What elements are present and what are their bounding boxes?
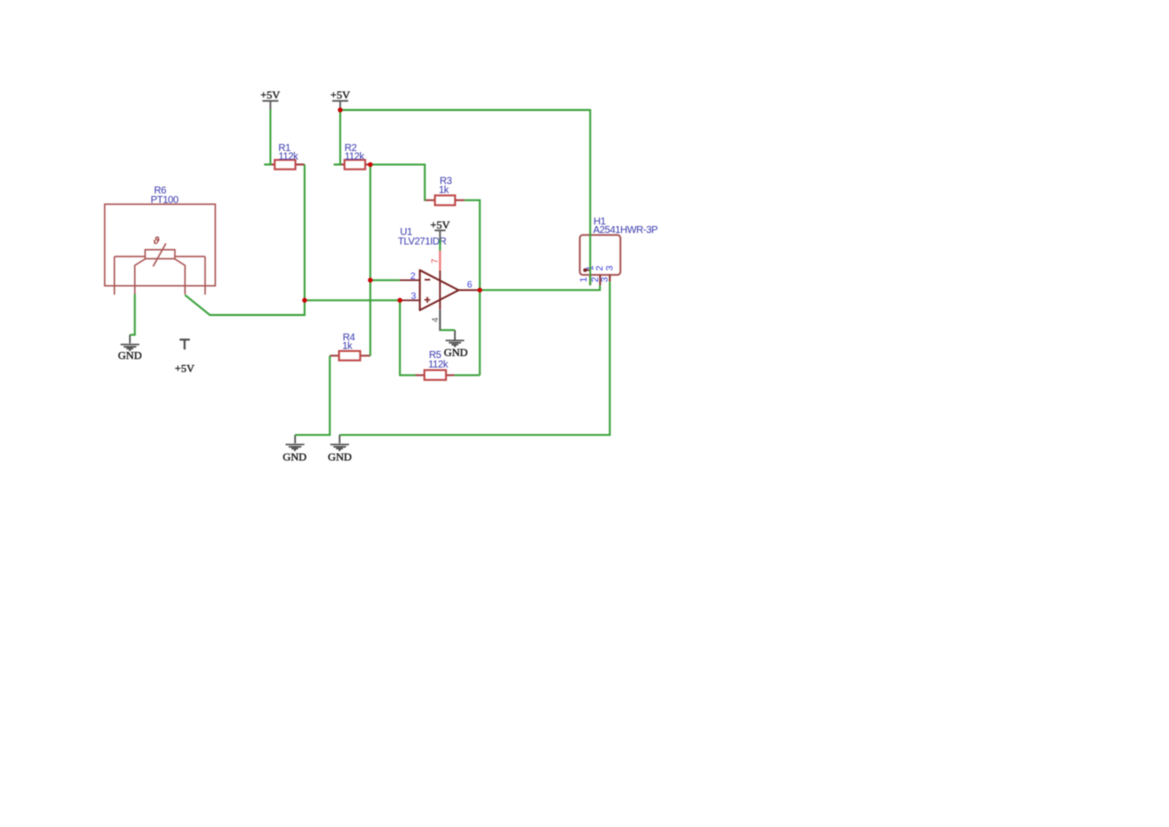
ground GND-C (opamp pin4) (444, 330, 468, 359)
svg-text:GND: GND (118, 350, 142, 362)
svg-text:A2541HWR-3P: A2541HWR-3P (593, 225, 658, 236)
svg-text:112k: 112k (278, 151, 299, 162)
svg-text:112k: 112k (428, 359, 449, 370)
wire branch to opamp pin2 (370, 279, 400, 281)
resistor R2 (334, 160, 371, 169)
svg-text:7: 7 (430, 258, 440, 263)
wire +5V P3 stub to pin7 (439, 240, 441, 251)
svg-text:GND: GND (283, 451, 307, 463)
power +5V symbol P3 (opamp supply) (430, 219, 450, 239)
opamp pin6 lead (459, 289, 480, 291)
svg-text:1k: 1k (342, 341, 353, 352)
svg-text:ϑ: ϑ (153, 236, 161, 247)
svg-text:+5V: +5V (330, 90, 350, 102)
wire pin3 node down to R5 (400, 300, 416, 375)
H1 pin1 stub (589, 275, 591, 285)
power +5V symbol P2 (above R2) (330, 90, 350, 109)
wire pin7 highlighted segment (439, 251, 441, 271)
wire PT100 to ground GND-D (130, 294, 135, 335)
thermistor R6 PT100 (105, 204, 216, 294)
wire R1 to node A (304, 165, 306, 301)
wire +5V P1 to R1 pin1 (264, 110, 270, 165)
resistor R4 (330, 351, 371, 360)
wire node A to opamp pin3 (305, 299, 400, 301)
wire R2 to R3 (370, 165, 425, 201)
svg-text:4: 4 (430, 317, 440, 322)
ground GND-A (rail left) (283, 435, 307, 464)
resistor R1 (264, 160, 304, 169)
svg-text:6: 6 (467, 279, 472, 290)
svg-text:+5V: +5V (260, 90, 280, 102)
connector H1 (580, 235, 621, 275)
svg-text:GND: GND (444, 347, 468, 359)
ground GND-B (rail) (328, 435, 352, 464)
resistor R3 (425, 195, 464, 205)
node junction at opamp output (477, 288, 482, 293)
wire opamp output to H1 pin2 (480, 285, 600, 290)
op-amp U1 (420, 270, 459, 310)
power +5V symbol P1 (above R1) (260, 90, 280, 111)
svg-text:2: 2 (410, 271, 415, 282)
svg-text:3: 3 (411, 291, 416, 302)
H1 pin3 stub (609, 275, 611, 282)
unconnected +5V symbol (T) (175, 340, 195, 375)
wire R5 to output column (454, 374, 479, 376)
ground GND-D (below PT100) (118, 335, 142, 362)
resistor R5 (416, 370, 455, 380)
wire R3 to output column (465, 200, 480, 375)
wire R4 to ground GND-A (295, 356, 330, 435)
wire pin4 to ground GND-C (440, 329, 455, 331)
svg-text:1k: 1k (439, 185, 450, 196)
svg-text:3: 3 (604, 266, 615, 271)
wire H1 pin3 to ground GND-B (340, 282, 610, 435)
opamp pin3 lead (400, 299, 420, 301)
svg-text:GND: GND (328, 451, 352, 463)
H1 pin2 stub (599, 275, 601, 285)
wire +5V P2 to R2 pin1 (334, 109, 340, 165)
svg-text:+5V: +5V (175, 363, 195, 375)
opamp pin7 lead (439, 270, 441, 310)
node junction at R2 output (368, 162, 373, 167)
node junction at +5V P2 (338, 108, 343, 113)
node junction at pin2 branch (368, 278, 373, 283)
wire R2 node down to R4 (369, 165, 371, 356)
wire node A to PT100 sense pin (185, 295, 305, 315)
svg-text:112k: 112k (345, 151, 366, 162)
svg-text:PT100: PT100 (151, 195, 180, 206)
svg-text:1: 1 (579, 277, 590, 282)
node junction at pin3 (398, 298, 403, 303)
wire +5V rail to H1 pin1 (340, 110, 590, 285)
svg-text:+5V: +5V (430, 219, 450, 231)
opamp pin4 lead (439, 310, 441, 330)
svg-text:3: 3 (599, 277, 610, 282)
opamp pin2 lead (400, 279, 420, 281)
node A junction (302, 298, 307, 303)
